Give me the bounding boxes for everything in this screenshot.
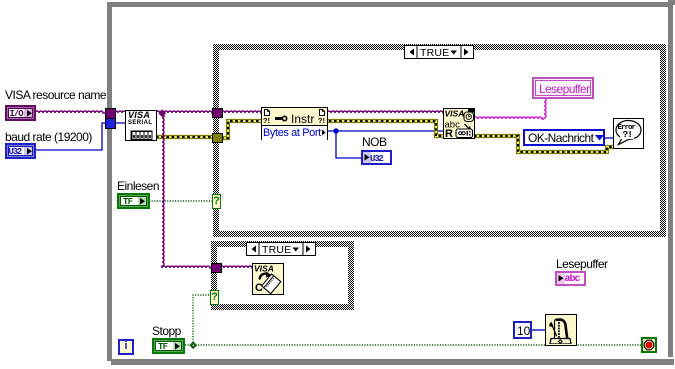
purple junction diamond: [158, 109, 166, 117]
case selector label TRUE (close case): [246, 242, 316, 256]
wire branch: -> NOB: [336, 131, 362, 158]
wire: Einlesen -> case selector: [149, 200, 214, 202]
one button dialog (Error ?!): [613, 118, 644, 149]
selector tunnel of close case: [210, 290, 219, 305]
control: Einlesen boolean: [117, 193, 150, 209]
purple-wire I/O->tunnel: [35, 111, 106, 113]
svg-text:TRUE: TRUE: [420, 47, 449, 58]
purple-wire VISA-serial->case-tunnel: [156, 111, 214, 113]
svg-text:Instr: Instr: [291, 112, 314, 126]
label: VISA resource name: [5, 89, 106, 102]
loop condition terminal (stop): [641, 337, 657, 353]
tunnel: VISA resource into loop: [105, 108, 116, 119]
VISA Read: [443, 108, 475, 139]
purple-wire property->visa-read: [327, 111, 444, 113]
property node Instr / Bytes at Port: [261, 107, 328, 140]
wire: OK-Nachricht -> error dialog: [605, 137, 614, 139]
svg-text:?!: ?!: [318, 118, 325, 126]
wire: 10 -> wait-ms: [531, 329, 546, 331]
tunnel: VISA resource into case: [212, 108, 223, 118]
selector tunnel of read case: [212, 194, 221, 209]
case selector label TRUE (read case): [404, 45, 474, 59]
local variable: Lesepuffer: [532, 77, 594, 99]
tunnel: error into case: [212, 133, 223, 143]
string-wire up->local: [544, 98, 546, 119]
wait until next ms multiple: [545, 314, 577, 346]
purple-wire tunnel->property-node: [221, 111, 262, 113]
tunnel: VISA resource into close-case: [211, 263, 222, 273]
wire: Stopp -> loop stop terminal: [185, 344, 641, 346]
control: baud rate U32: [5, 143, 36, 159]
purple-wire small-tunnel->visa-close: [220, 266, 253, 268]
loop iteration terminal i: [118, 339, 134, 355]
label: Stopp: [152, 325, 181, 338]
VISA Configure Serial Port: [125, 110, 157, 141]
label: NOB: [362, 136, 387, 149]
tunnel: baud rate into loop: [105, 118, 116, 129]
svg-text:TRUE: TRUE: [262, 244, 291, 255]
control: Stopp boolean: [152, 338, 185, 354]
purple-wire down-branch: [162, 114, 164, 268]
indicator: Lesepuffer string: [555, 271, 586, 286]
svg-text:?!: ?!: [623, 129, 632, 140]
case structure (close) border: [211, 241, 354, 310]
svg-text:Bytes at Port: Bytes at Port: [263, 127, 321, 139]
svg-text:C: C: [255, 282, 263, 294]
string-wire read->up: [474, 117, 544, 119]
error wire: tunnel -> property node -> VISA read: [221, 121, 444, 138]
label: Lesepuffer (indicator): [556, 258, 608, 271]
svg-text:R: R: [445, 128, 453, 138]
junction on Stopp wire: [189, 341, 197, 349]
purple-wire tunnel->VISA-serial: [114, 111, 126, 113]
wire: branch -> small case selector: [193, 295, 212, 345]
wire: Bytes at Port -> VISA read count: [327, 130, 444, 132]
numeric constant 10: [513, 321, 532, 339]
junction dot NOB: [333, 128, 338, 133]
error wire: VISA serial -> case tunnel: [156, 135, 214, 139]
label: Einlesen: [117, 180, 159, 193]
purple-wire ->small-case-tunnel: [162, 266, 212, 268]
error wire: VISA read -> error dialog: [474, 136, 614, 152]
control: VISA resource name (I/O): [5, 105, 36, 121]
svg-text:VISA: VISA: [254, 264, 274, 274]
wire: tunnel -> VISA serial: [114, 122, 126, 124]
ring constant OK-Nachricht: [523, 129, 605, 146]
label: baud rate (19200): [5, 131, 92, 144]
case structure (read) border: [213, 44, 666, 237]
VISA Close: [252, 263, 284, 295]
svg-text:VISA: VISA: [445, 109, 465, 119]
svg-text:?!: ?!: [263, 118, 270, 126]
indicator: NOB U32: [361, 150, 392, 165]
wire: baud rate -> tunnel: [35, 123, 106, 150]
